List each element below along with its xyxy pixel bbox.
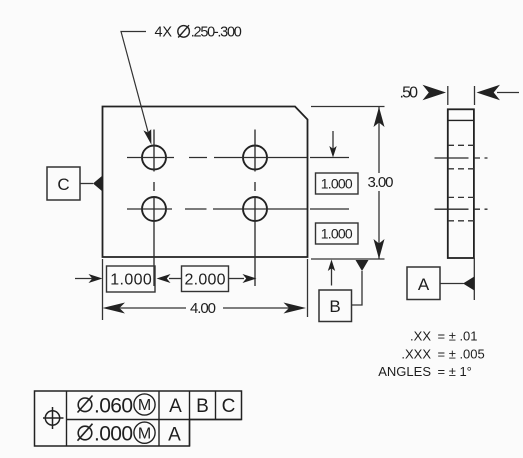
- svg-text:ANGLES: ANGLES: [378, 364, 431, 379]
- dimension 2.000 bottom with box: [157, 266, 257, 292]
- basic dimension box 1.000 right lower: [316, 223, 359, 244]
- dimension 1.000 bottom with box: [75, 266, 155, 292]
- side view centerline row1: [435, 157, 488, 159]
- arrow down to row 1: [329, 131, 336, 158]
- dimension 4.00 overall width: [103, 300, 307, 317]
- FCF row1 value .060: [94, 395, 133, 418]
- hidden line hole row1 top: [448, 144, 474, 146]
- feature control frame dividers: [67, 391, 242, 446]
- hidden line hole row2 top: [448, 196, 474, 198]
- svg-text:4X: 4X: [155, 25, 173, 41]
- arrow up to bottom edge: [328, 260, 335, 286]
- svg-text:1.000: 1.000: [321, 176, 353, 192]
- dimension .50: [400, 85, 520, 102]
- FCF row1 M circle modifier: [134, 394, 155, 415]
- side view outline: [448, 109, 474, 258]
- svg-text:A: A: [418, 275, 430, 294]
- datum B symbol: [319, 260, 369, 322]
- callout text 4X dia .250-.300: [155, 25, 242, 41]
- extension line bottom right edge: [307, 259, 309, 317]
- FCF row2 M circle modifier: [134, 422, 155, 443]
- svg-text:= ± .01: = ± .01: [438, 329, 478, 344]
- side view right edge extension: [473, 258, 475, 300]
- FCF row1 datum B: [196, 396, 209, 417]
- svg-text:.XXX: .XXX: [401, 347, 431, 362]
- svg-text:1.000: 1.000: [321, 226, 353, 242]
- extension line top right: [311, 106, 385, 108]
- dimension 3.00 vertical: [368, 107, 394, 259]
- hole bottom-left: [142, 197, 166, 221]
- svg-text:3.00: 3.00: [368, 174, 394, 191]
- svg-text:C: C: [57, 175, 69, 194]
- svg-text:.000: .000: [94, 423, 133, 446]
- svg-text:B: B: [196, 396, 209, 417]
- svg-text:.250-.300: .250-.300: [191, 25, 242, 41]
- plate outline front view: [103, 107, 308, 258]
- FCF row1 datum A: [169, 396, 182, 417]
- hole top-left: [142, 146, 166, 170]
- extension lines for .50: [448, 86, 475, 105]
- horizontal centerline row 1: [127, 157, 349, 159]
- FCF row1 datum C: [222, 396, 236, 417]
- hole bottom-right: [243, 197, 267, 221]
- vertical centerline column 2: [254, 130, 256, 287]
- svg-text:.060: .060: [94, 395, 133, 418]
- FCF row2 value .000: [94, 423, 133, 446]
- FCF row2 diameter symbol: [78, 424, 93, 441]
- svg-text:.50: .50: [400, 85, 419, 102]
- svg-text:1.000: 1.000: [110, 272, 152, 289]
- tolerance note angles: [378, 364, 472, 379]
- svg-text:B: B: [329, 297, 340, 316]
- leader line callout 4X holes: [121, 32, 151, 145]
- extension line bottom right: [311, 258, 385, 260]
- svg-text:A: A: [169, 396, 182, 417]
- hole top-right: [243, 146, 267, 170]
- svg-text:2.000: 2.000: [185, 272, 226, 289]
- tolerance note .XXX: [401, 347, 484, 362]
- svg-text:= ± 1°: = ± 1°: [438, 364, 472, 379]
- side view centerline row2: [435, 208, 488, 210]
- extension line bottom left edge: [102, 259, 104, 320]
- side view chamfer line: [448, 119, 474, 121]
- svg-text:4.00: 4.00: [190, 300, 216, 317]
- feature control frame border: [35, 391, 242, 446]
- datum A symbol: [407, 267, 474, 300]
- svg-text:M: M: [138, 397, 151, 414]
- hidden line hole row1 bottom: [448, 168, 474, 170]
- svg-text:M: M: [138, 425, 151, 442]
- vertical centerline column 1: [153, 130, 155, 287]
- horizontal centerline row 2: [127, 208, 349, 210]
- svg-text:A: A: [168, 425, 181, 446]
- svg-text:= ± .005: = ± .005: [438, 347, 485, 362]
- datum C symbol: [47, 167, 103, 200]
- basic dimension box 1.000 right upper: [316, 173, 359, 194]
- svg-text:C: C: [222, 396, 236, 417]
- position symbol: [43, 407, 64, 429]
- FCF row2 datum A: [168, 425, 181, 446]
- tolerance note .XX: [410, 329, 478, 344]
- FCF row1 diameter symbol: [78, 396, 93, 413]
- svg-text:.XX: .XX: [410, 329, 431, 344]
- hidden line hole row2 bottom: [448, 220, 474, 222]
